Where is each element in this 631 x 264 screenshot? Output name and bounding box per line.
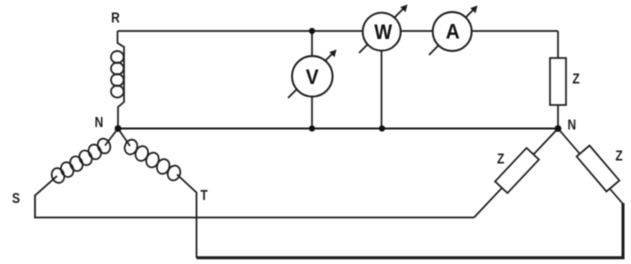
svg-text:S: S: [12, 190, 20, 207]
wire: left Z diagonal N(right) to S-bus corner: [474, 129, 558, 218]
svg-text:N: N: [95, 114, 104, 131]
wire: N to right coil start: [118, 129, 130, 147]
node dot: V bottom junction: [309, 125, 315, 131]
svg-text:Z: Z: [615, 147, 622, 164]
wattmeter W1 circle: [363, 13, 401, 51]
wire: T drop + bottom bus: [177, 175, 197, 258]
node dot: V top junction: [309, 28, 315, 34]
meter needle A: [429, 8, 475, 55]
node dot: N right: [555, 125, 562, 132]
wire: right drop to Z (top-right corner): [557, 31, 559, 129]
svg-text:R: R: [111, 9, 120, 26]
impedance Z (right diagonal box): [577, 145, 620, 191]
meter needle W: [359, 7, 405, 53]
svg-text:V: V: [306, 67, 319, 90]
node dot: W bottom junction: [379, 125, 385, 131]
inductor R-phase (vertical coil): [118, 31, 125, 129]
wire: neutral bus N-N y=128.5: [118, 128, 558, 130]
wire: bottom bus y=257.7: [197, 203, 624, 258]
meter needle V: [288, 52, 334, 98]
svg-text:A: A: [446, 21, 460, 44]
node dot: N left: [115, 125, 122, 132]
ammeter A1 circle: [433, 12, 472, 51]
wire: S bus horizontal + corner: [35, 176, 474, 218]
svg-text:Z: Z: [497, 150, 504, 167]
svg-text:T: T: [200, 187, 208, 204]
impedance Z (right branch, vertical box): [550, 58, 566, 105]
wire: V meter branch: [311, 31, 313, 129]
inductor T-phase (diagonal coil): [123, 138, 183, 182]
voltmeter V1 circle: [292, 56, 333, 97]
impedance Z (left diagonal box): [495, 148, 539, 193]
wire: top bus R line y=31: [118, 30, 559, 32]
wire: W meter bottom branch: [381, 31, 383, 129]
wire: N to left coil start: [105, 129, 118, 146]
svg-text:Z: Z: [572, 70, 579, 87]
svg-text:N: N: [567, 116, 576, 133]
inductor S-phase (diagonal coil): [50, 137, 113, 185]
svg-text:W: W: [374, 21, 392, 44]
wire: right Z diagonal N(right) down-right: [558, 129, 623, 205]
